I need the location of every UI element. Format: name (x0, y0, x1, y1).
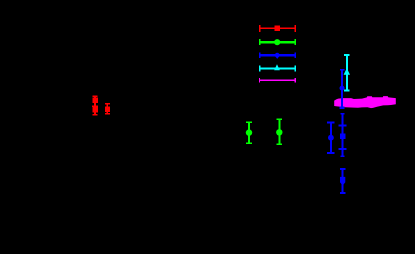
green data group (246, 118, 283, 145)
legend entry 4: cyan horizontal bar with triangle marker (259, 64, 296, 71)
blue point 4: vertical error bar with pentagon marker (340, 168, 346, 194)
green point 2: vertical error bar with circle marker (276, 118, 282, 145)
legend entry 2: green horizontal bar with circle marker (259, 39, 296, 45)
red data group (92, 96, 110, 116)
legend entry 3: blue horizontal bar with round marker (259, 52, 296, 59)
red point 1: vertical error bar with square marker (92, 96, 98, 115)
legend entry 5: magenta horizontal bar, no marker (259, 78, 296, 83)
green point 1: vertical error bar with circle marker (246, 121, 252, 144)
blue point 3: double error bar with square marker (339, 113, 347, 157)
legend entry 1: red horizontal bar with square marker (259, 25, 296, 32)
red point 2: vertical error bar with square marker (92, 106, 98, 116)
red point 3: vertical error bar with square marker (105, 103, 110, 115)
blue data group (327, 69, 346, 194)
blue point 2: vertical error bar with circle marker (327, 121, 334, 153)
blue point 1: vertical error bar with circle marker (340, 69, 345, 109)
cyan data point: vertical error bar with triangle marker (344, 54, 350, 91)
magenta uncertainty band (334, 96, 396, 108)
